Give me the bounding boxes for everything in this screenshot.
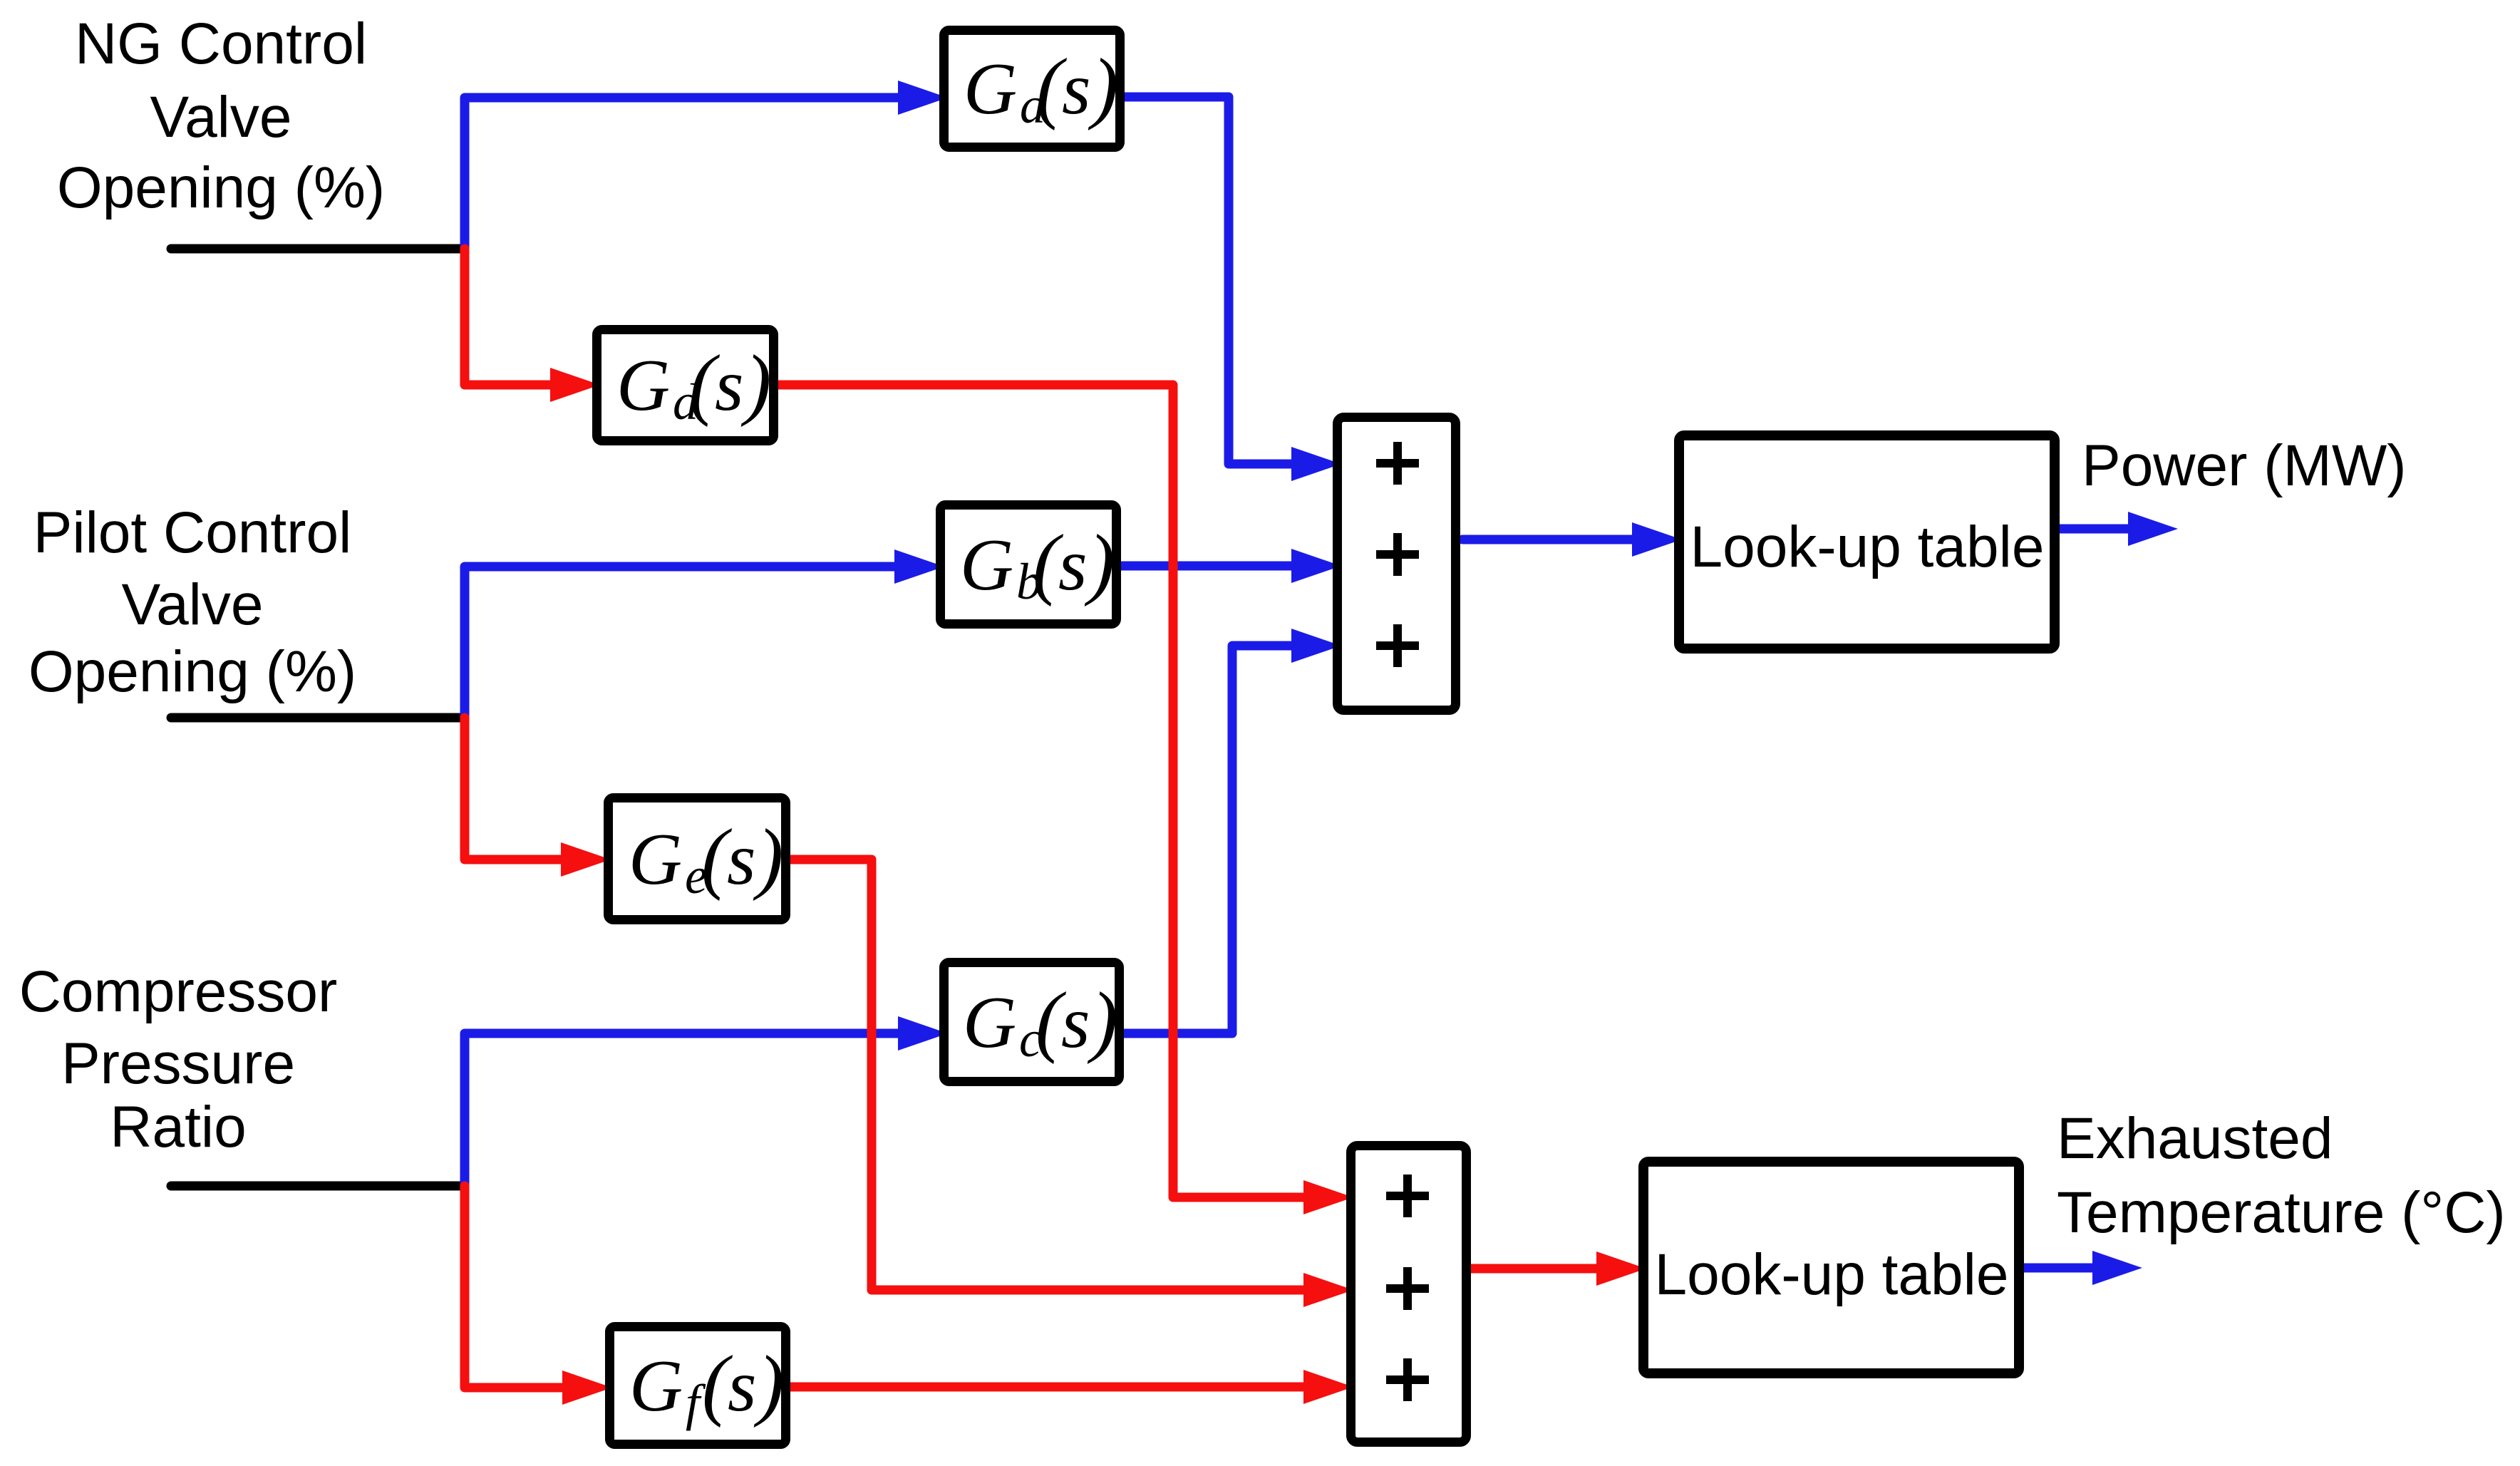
plus sign S2-3 — [1386, 1358, 1429, 1401]
summer S2 (temperature) — [1351, 1146, 1467, 1442]
summer S1 (power) — [1338, 418, 1456, 711]
svg-text:): ) — [1084, 519, 1115, 607]
arrowhead into S1 input 3 — [1291, 629, 1341, 663]
svg-text:Compressor: Compressor — [19, 959, 338, 1024]
svg-text:): ) — [1088, 43, 1118, 131]
svg-text:Temperature (°C): Temperature (°C) — [2057, 1180, 2506, 1245]
svg-text:G: G — [960, 524, 1013, 606]
plus sign S1-2 — [1376, 533, 1419, 576]
svg-text:Power (MW): Power (MW) — [2082, 433, 2407, 498]
arrowhead into S1 input 2 — [1291, 549, 1341, 583]
arrowhead into L2 — [1596, 1251, 1646, 1286]
wire: L1 output (blue) Power — [2060, 525, 2129, 534]
input label: Pilot Control Valve Opening (%) — [29, 500, 356, 704]
label Gf(s) — [629, 1340, 784, 1431]
svg-text:Exhausted: Exhausted — [2057, 1106, 2333, 1171]
svg-text:Ratio: Ratio — [110, 1095, 246, 1160]
svg-text:NG Control: NG Control — [75, 11, 367, 76]
wire: Gc output (blue) up to summer S1 input 3 — [1124, 646, 1293, 1033]
block L1: Look-up table (power) — [1679, 435, 2055, 649]
svg-text:Pilot Control: Pilot Control — [33, 500, 352, 565]
arrowhead into S2 input 1 — [1303, 1180, 1353, 1214]
wire: NG branch (blue) up to Ga — [465, 98, 902, 249]
svg-text:s: s — [1058, 524, 1087, 606]
arrowhead into S1 input 1 — [1291, 447, 1341, 481]
wire: Ge output (red) down to summer S2 input 2 — [790, 860, 1306, 1290]
wire: Ga output (blue) down to summer S1 input 1 — [1125, 97, 1293, 464]
svg-text:Valve: Valve — [121, 572, 263, 637]
label Ga(s) — [964, 43, 1118, 134]
svg-text:G: G — [616, 344, 670, 426]
arrowhead: Power output — [2128, 512, 2178, 546]
block Gc — [944, 963, 1120, 1082]
wire: summer S1 output (blue) to look-up table L1 — [1462, 535, 1634, 544]
block Gf — [610, 1327, 786, 1445]
svg-text:s: s — [727, 818, 755, 900]
wire: Gb output (blue) to summer S1 input 2 — [1121, 562, 1293, 571]
svg-text:G: G — [963, 981, 1016, 1063]
input label: Compressor Pressure Ratio — [19, 959, 338, 1160]
arrowhead into S2 input 2 — [1303, 1273, 1353, 1307]
wire: summer S2 output (red) to look-up table L2 — [1471, 1264, 1599, 1274]
output label: Exhausted Temperature (°C) — [2057, 1106, 2506, 1245]
plus sign S2-2 — [1386, 1267, 1429, 1310]
arrowhead into L1 — [1632, 522, 1682, 557]
svg-text:Pressure: Pressure — [61, 1031, 295, 1096]
arrowhead into Ge — [561, 842, 611, 877]
input label: NG Control Valve Opening (%) — [57, 11, 385, 220]
plus sign S1-1 — [1376, 442, 1419, 485]
wire: Gd output (red) down to summer S2 input 1 — [778, 385, 1306, 1197]
svg-text:s: s — [728, 1345, 756, 1427]
label Gb(s) — [960, 519, 1115, 610]
wire: Pilot branch (red) down to Ge — [465, 718, 563, 860]
block Gd — [597, 330, 774, 441]
svg-text:Opening (%): Opening (%) — [29, 639, 356, 704]
wire: NG input line (black) — [171, 244, 465, 254]
wire: Compressor branch (red) down to Gf — [465, 1186, 564, 1388]
wire: Compressor input line (black) — [171, 1182, 465, 1191]
arrowhead into Gd — [550, 368, 600, 402]
arrowhead into S2 input 3 — [1303, 1370, 1353, 1404]
svg-text:Opening (%): Opening (%) — [57, 155, 385, 220]
svg-text:): ) — [753, 1340, 784, 1428]
wire: Pilot branch (blue) up to Gb — [465, 567, 897, 718]
arrowhead into Ga — [898, 81, 948, 115]
svg-text:): ) — [1087, 976, 1117, 1065]
svg-text:s: s — [1061, 981, 1090, 1063]
plus sign S1-3 — [1376, 624, 1419, 667]
svg-text:Valve: Valve — [150, 85, 291, 150]
block L2: Look-up table (temperature) — [1643, 1162, 2019, 1373]
block Ge — [609, 798, 786, 920]
svg-text:G: G — [629, 1345, 683, 1427]
svg-text:): ) — [753, 813, 783, 902]
label Gd(s) — [616, 339, 771, 430]
wire: Pilot input line (black) — [171, 713, 465, 723]
svg-text:G: G — [964, 48, 1017, 130]
wire: Gf output (red) to summer S2 input 3 — [790, 1383, 1306, 1392]
svg-text:Look-up table: Look-up table — [1690, 515, 2045, 579]
wire: NG branch (red) down to Gd — [465, 249, 552, 385]
plus sign S2-1 — [1386, 1175, 1429, 1217]
svg-text:G: G — [629, 818, 682, 900]
svg-text:s: s — [1062, 48, 1090, 130]
svg-text:): ) — [740, 339, 771, 428]
wire: Compressor branch (blue) up to Gc — [465, 1033, 899, 1186]
arrowhead: Exhausted Temperature output — [2092, 1251, 2142, 1285]
wire: L2 output (blue) Exhausted Temperature — [2024, 1264, 2094, 1273]
label Gc(s) — [963, 976, 1117, 1068]
arrowhead into Gf — [562, 1370, 612, 1405]
arrowhead into Gb — [894, 549, 944, 584]
svg-text:s: s — [715, 344, 743, 426]
block Ga — [944, 31, 1120, 148]
arrowhead into Gc — [898, 1016, 948, 1051]
block Gb — [941, 505, 1117, 624]
label Ge(s) — [629, 813, 783, 904]
svg-text:Look-up table: Look-up table — [1655, 1242, 2009, 1307]
